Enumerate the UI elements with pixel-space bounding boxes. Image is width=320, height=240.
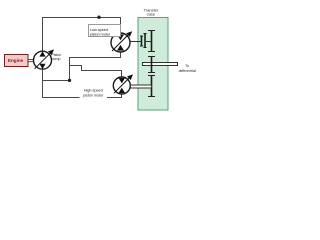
- node: junction dot on top line: [97, 16, 100, 19]
- svg-text:piston motor: piston motor: [83, 92, 104, 97]
- high-speed motor M2: [113, 74, 133, 94]
- node: junction dot at branch: [68, 79, 71, 82]
- svg-text:Engine: Engine: [8, 58, 24, 63]
- pump P1 (variable displacement piston pump): [34, 49, 55, 69]
- svg-text:case: case: [147, 11, 156, 16]
- gear G2 (mating gear): [143, 34, 146, 48]
- svg-text:differential: differential: [179, 69, 197, 73]
- svg-text:To: To: [185, 64, 189, 68]
- label box: Low-speed piston motor: [89, 25, 121, 37]
- wire: branch from zigzag tee down to pump-bottom branch: [43, 66, 70, 81]
- engine box E1: [5, 55, 29, 67]
- wire: engine to pump shaft: [28, 60, 33, 62]
- svg-text:pump: pump: [51, 57, 60, 61]
- output shaft bar (to differential): [143, 63, 178, 66]
- wire: HS motor bottom to pump bottom (return): [43, 70, 122, 98]
- wire: LS motor bottom to HS motor top (zigzag): [70, 52, 122, 77]
- wire: pump top to low-speed motor top: [43, 18, 121, 51]
- low-speed motor M1: [111, 31, 132, 52]
- gear G4 line over bar: [151, 62, 153, 66]
- shaft: gear G2 to gear G3: [146, 41, 152, 43]
- gear G4 (on output shaft): [148, 57, 155, 73]
- gear G3 (tall upper gear): [148, 31, 155, 52]
- gear G5 (lower gear): [148, 76, 155, 97]
- shaft: LS motor to gearbox: [130, 41, 141, 43]
- transfer case (green box): [138, 18, 168, 111]
- svg-text:piston motor: piston motor: [90, 31, 111, 36]
- shaft bar: HS motor to gear G5: [131, 85, 152, 88]
- label: High-speed piston motor (white halo): [80, 87, 108, 98]
- gear G1 (pinion on LS motor shaft): [140, 36, 143, 46]
